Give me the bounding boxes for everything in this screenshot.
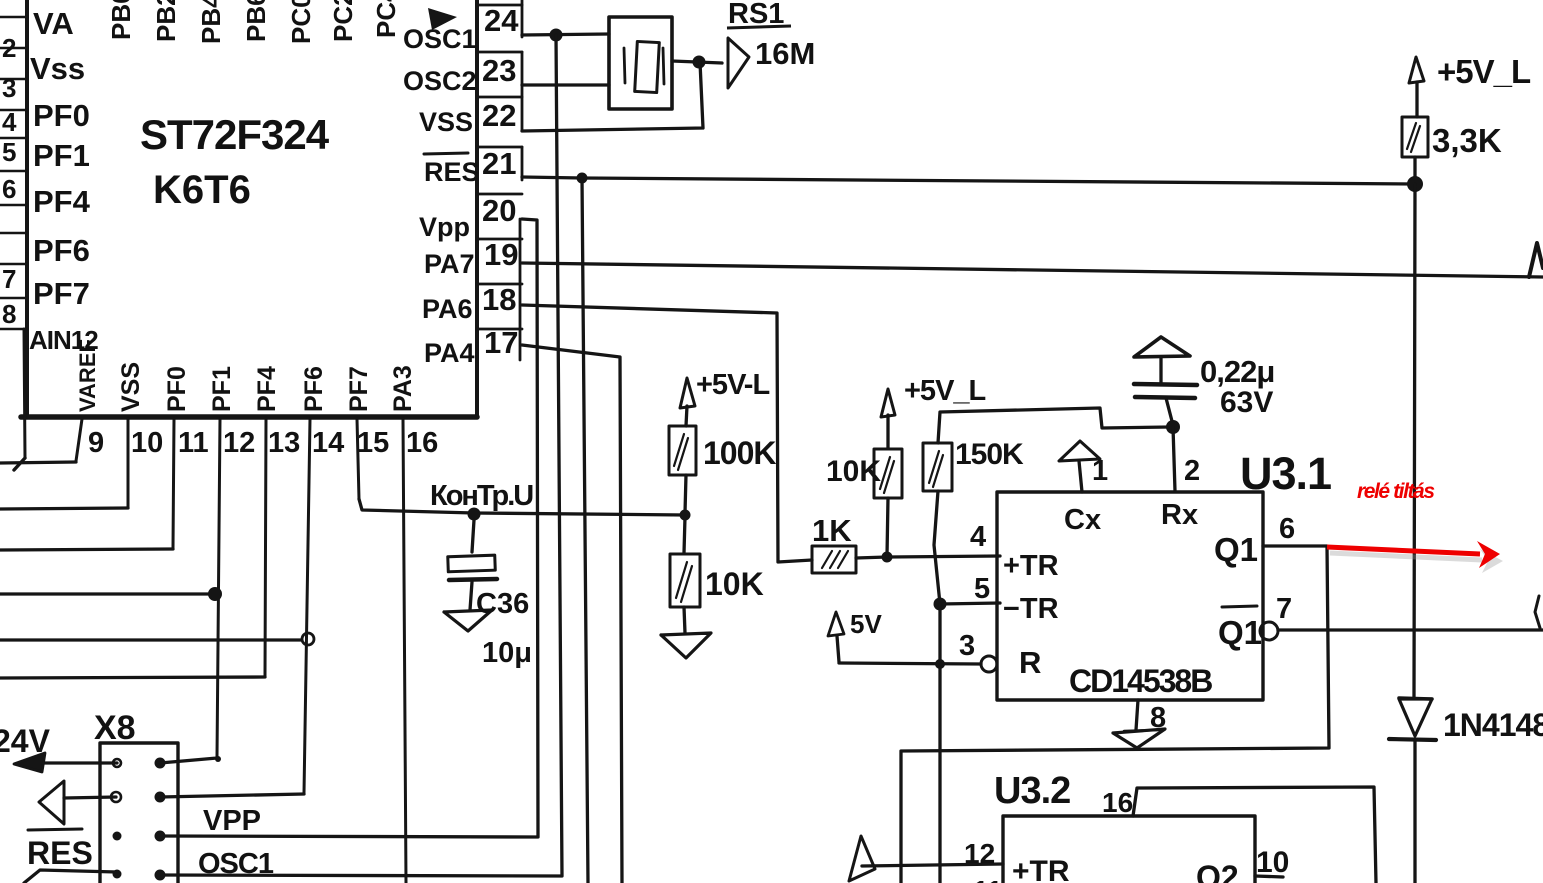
red arrow relay disable (1327, 541, 1500, 568)
junction dot crystal right (693, 56, 706, 69)
svg-text:PB0: PB0 (106, 0, 136, 40)
wire 24V arrow to X8 row1 (30, 761, 117, 764)
svg-text:PB2: PB2 (151, 0, 181, 42)
U2 right pin labels (403, 24, 480, 368)
svg-text:+TR: +TR (1003, 550, 1059, 582)
svg-text:Q1: Q1 (1218, 614, 1262, 651)
U3.2 pin numbers (964, 787, 1289, 883)
svg-text:3,3K: 3,3K (1432, 122, 1502, 159)
svg-text:PF7: PF7 (345, 366, 373, 412)
svg-text:14: 14 (312, 427, 344, 459)
svg-text:24: 24 (484, 3, 519, 38)
svg-text:10μ: 10μ (482, 637, 532, 669)
junction dot RES (577, 173, 588, 184)
svg-text:OSC1: OSC1 (403, 24, 477, 54)
svg-text:23: 23 (482, 53, 516, 88)
svg-text:VAREF: VAREF (75, 339, 100, 412)
wire X8 row1 to pin12 vertical (160, 757, 217, 763)
wire 150K top to cap node (938, 408, 1170, 443)
wire pin13 to left edge (0, 677, 265, 678)
svg-text:U3.2: U3.2 (994, 770, 1070, 812)
svg-text:Cx: Cx (1064, 504, 1101, 536)
wire PA4 pin17 vertical to bottom (522, 345, 622, 883)
X8 right pin dots (155, 758, 166, 769)
svg-text:PC2: PC2 (328, 0, 358, 42)
svg-text:12: 12 (223, 427, 255, 459)
U2 left pin numbers (cut) (2, 33, 17, 329)
X8 left pin row1 ring (113, 759, 121, 767)
svg-text:8: 8 (2, 299, 16, 329)
junction dot KOHTp.U (468, 508, 481, 521)
wire 150K bottom to -TR junction (934, 491, 940, 604)
power arrow 5V at R node (828, 612, 844, 636)
U2 left pin labels (29, 6, 98, 355)
cut mark on PA7 right edge (1529, 243, 1543, 277)
wire 1K to +TR junction (856, 557, 887, 558)
svg-text:+TR: +TR (1012, 855, 1070, 883)
svg-text:5: 5 (2, 137, 16, 167)
svg-text:OSC2: OSC2 (403, 66, 477, 96)
svg-text:24V: 24V (0, 723, 51, 759)
ground under U3.1 pin8 (1113, 729, 1165, 748)
svg-text:PF7: PF7 (33, 276, 90, 311)
svg-text:X8: X8 (94, 709, 136, 747)
svg-text:17: 17 (484, 325, 518, 360)
diode 1N4148 (1399, 698, 1432, 699)
resistor 10K lower (684, 517, 685, 553)
U3.2 pin10 stub (1255, 876, 1283, 877)
red arrow shadow (1330, 549, 1503, 573)
U2 left pin boxes (pins 1-8, cut at left edge) (0, 17, 27, 329)
svg-text:RES: RES (424, 157, 480, 187)
svg-text:Q1: Q1 (1214, 531, 1258, 568)
wire U3.1 pin7 to right edge (1278, 628, 1543, 631)
svg-text:6: 6 (1279, 513, 1295, 545)
overline RES label (28, 829, 82, 830)
svg-text:0,22μ: 0,22μ (1200, 354, 1274, 389)
capacitor C36 lead (472, 520, 474, 552)
svg-text:4: 4 (970, 521, 986, 553)
svg-text:16M: 16M (755, 36, 815, 71)
svg-text:10K: 10K (826, 455, 881, 488)
svg-text:PF1: PF1 (208, 366, 236, 412)
svg-text:15: 15 (357, 427, 389, 459)
svg-text:КонТр.U: КонТр.U (430, 480, 533, 512)
svg-text:VSS: VSS (117, 362, 145, 412)
ground under 10K (661, 633, 711, 658)
svg-text:R: R (1019, 645, 1041, 680)
wire pin11 to left edge (0, 549, 173, 550)
capacitor 0.22u plates (1134, 384, 1197, 385)
wire PA6 pin18 to 1K resistor (522, 305, 812, 562)
svg-text:16: 16 (1102, 787, 1133, 818)
crystal RS1 electrodes (624, 48, 625, 83)
capacitor 0.22u lower lead (1166, 398, 1173, 425)
bubble U3.1 pin7 (1260, 622, 1278, 640)
wire pin9 to left edge (0, 462, 76, 463)
svg-text:16: 16 (406, 427, 438, 459)
svg-text:11: 11 (973, 875, 1003, 883)
wire -TR node to U3.1 pin5 (940, 603, 1000, 604)
svg-text:PB4: PB4 (196, 0, 226, 44)
svg-text:PF4: PF4 (253, 366, 281, 412)
wire pin10 to left edge (0, 508, 128, 509)
wire Rx node to U3.1 pin2 (1173, 427, 1175, 491)
svg-text:5: 5 (974, 573, 990, 605)
wire OSC1 pin24 to crystal (522, 34, 609, 35)
IC U2 ST72F324 body (21, 0, 477, 417)
U2 bottom pin stubs (pins 9-16) (76, 419, 406, 883)
wire -TR node down to R node and U3.2 (938, 604, 941, 883)
svg-text:1N4148: 1N4148 (1443, 707, 1543, 743)
svg-text:5V: 5V (850, 609, 882, 639)
svg-text:63V: 63V (1220, 386, 1273, 419)
U3.1 pin8 stub (1136, 700, 1138, 730)
wire pin15 to KOHTp.U node (359, 499, 474, 513)
wire pin12 to left edge (junction) (0, 592, 215, 595)
capacitor C36 top plate (448, 555, 495, 572)
U2 right pin box column (477, 0, 522, 360)
svg-text:U3.1: U3.1 (1240, 448, 1331, 499)
X8 left pin row4 dot (113, 870, 122, 879)
svg-text:1K: 1K (812, 513, 852, 548)
crystal RS1 body (609, 17, 672, 109)
wire VPP pin20 to X8 (160, 219, 538, 837)
resistor 10K mid (874, 449, 902, 498)
junction dot +TR node (882, 552, 893, 563)
svg-text:2: 2 (2, 33, 16, 63)
svg-text:+5V_L: +5V_L (1437, 53, 1531, 90)
resistor 100K (669, 426, 696, 475)
wire RES to X8 row4 (24, 870, 117, 883)
svg-text:RES: RES (27, 835, 93, 871)
svg-text:+5V-L: +5V-L (696, 369, 769, 401)
wire 100K to junction (685, 475, 686, 513)
op-amp U3.1 CD14538B body (997, 492, 1263, 700)
svg-text:PA4: PA4 (424, 338, 475, 368)
svg-text:C36: C36 (476, 588, 529, 620)
wire 5V to U3.1 pin3 (839, 663, 981, 664)
svg-text:12: 12 (964, 838, 995, 869)
svg-text:VA: VA (33, 6, 74, 41)
svg-text:CD14538B: CD14538B (1069, 663, 1212, 699)
svg-text:PC0: PC0 (286, 0, 316, 44)
arrow +TR U3.2 open triangle (849, 836, 875, 881)
svg-text:relé tiltás: relé tiltás (1357, 480, 1435, 503)
U2 left edge lower segment to bottom-left corner (24, 329, 25, 458)
wire crystal node down to VSS pin22 (522, 62, 703, 131)
U3.2 pin16 stub and wire (1133, 787, 1376, 883)
pin1 Cx arrow (1059, 441, 1100, 461)
svg-text:10: 10 (131, 427, 163, 459)
svg-text:PF1: PF1 (33, 138, 90, 173)
cut mark right edge pin7 line (1535, 596, 1540, 628)
svg-text:Vss: Vss (30, 51, 85, 86)
svg-text:VPP: VPP (203, 805, 261, 837)
power arrow +5V-L above 100K (680, 378, 695, 408)
crystal RS1 inner plate (635, 41, 660, 92)
svg-text:PF0: PF0 (163, 366, 191, 412)
svg-text:100K: 100K (703, 435, 776, 471)
wire +TR node to U3.1 pin4 (887, 556, 1000, 557)
svg-text:PA7: PA7 (424, 249, 475, 279)
svg-text:Q2: Q2 (1196, 859, 1239, 883)
svg-text:−TR: −TR (1003, 593, 1059, 625)
svg-text:PF0: PF0 (33, 98, 90, 133)
svg-text:PF4: PF4 (33, 184, 91, 219)
wire U3.1 pin6 Q1 (901, 546, 1329, 883)
U2 bottom pin numbers (88, 427, 438, 459)
svg-text:20: 20 (482, 193, 516, 228)
capacitor 0.22u top arrow (1134, 337, 1190, 357)
ground under C36 (444, 610, 492, 631)
wire X8 row2 to pin14 vertical (160, 794, 304, 797)
wire 3.3K junction down through diode to bottom (1414, 184, 1415, 698)
svg-text:7: 7 (2, 264, 16, 294)
overline Q1 pin7 label (1222, 606, 1257, 607)
X8 left pin row3 dot (113, 832, 122, 841)
svg-text:ST72F324: ST72F324 (140, 111, 330, 158)
svg-text:PA3: PA3 (389, 365, 417, 412)
svg-text:13: 13 (268, 427, 300, 459)
svg-text:K6T6: K6T6 (153, 168, 251, 212)
resonator triangle symbol (728, 38, 749, 88)
svg-text:8: 8 (1150, 702, 1166, 734)
connector X8 body (100, 743, 178, 883)
svg-text:PC4: PC4 (371, 0, 401, 38)
svg-text:18: 18 (482, 282, 516, 317)
svg-text:150K: 150K (955, 438, 1024, 471)
svg-text:Vpp: Vpp (419, 212, 470, 242)
svg-text:7: 7 (1276, 593, 1292, 625)
svg-text:PB6: PB6 (241, 0, 271, 42)
IC U3.2 body (1003, 816, 1255, 883)
svg-text:3: 3 (2, 73, 16, 103)
junction dot R node (935, 659, 945, 669)
wire crystal to resonator node (672, 61, 722, 63)
junction dot OSC1 (550, 29, 563, 42)
bubble U3.1 pin3 (981, 656, 997, 672)
svg-text:21: 21 (482, 146, 516, 181)
svg-text:9: 9 (88, 427, 104, 459)
svg-text:6: 6 (2, 174, 16, 204)
wire pin14 to left edge (0, 638, 301, 641)
arrow 24V head (14, 753, 45, 772)
U2 bottom pin labels rotated (75, 339, 417, 412)
feedthrough circle on pin14 line (302, 633, 314, 645)
svg-text:PF6: PF6 (33, 233, 90, 268)
svg-text:Rx: Rx (1161, 499, 1198, 531)
power arrow +5V_L top right (1409, 57, 1424, 83)
arrow X8 row2 open triangle (39, 781, 64, 824)
capacitor C36 lower lead (470, 582, 472, 610)
wire +TR arrow to U3.2 pin12 (862, 864, 1003, 866)
wire RES pin21 to 3.3K junction (522, 177, 1414, 184)
junction dot -TR node (934, 598, 947, 611)
overline RES pin21 label (424, 153, 468, 154)
svg-text:PF6: PF6 (300, 366, 328, 412)
U2 top pin labels (cut by edge) (106, 0, 401, 44)
svg-text:1: 1 (1092, 455, 1108, 487)
svg-text:4: 4 (2, 107, 17, 137)
svg-text:PA6: PA6 (422, 294, 473, 324)
resistor 1K (812, 546, 856, 573)
svg-text:19: 19 (484, 237, 518, 272)
svg-text:+5V_L: +5V_L (904, 375, 986, 407)
mark top arrow (428, 8, 457, 30)
junction dot divider (680, 510, 691, 521)
wire OSC1 vertical to X8 (160, 35, 562, 876)
wire node KOHTp.U to divider junction (474, 513, 685, 515)
capacitor C36 bottom plate (449, 579, 497, 580)
wire RES vertical to bottom (582, 178, 588, 883)
junction dot pin12 (208, 587, 222, 601)
wire OSC2 pin23 to crystal (522, 83, 609, 86)
junction dot 3.3K RES (1407, 176, 1423, 192)
resistor 3.3K (1402, 117, 1428, 157)
U3.1 pin numbers (959, 455, 1295, 734)
X8 left pin row2 ring (111, 792, 121, 802)
U3.1 pin names (1003, 499, 1262, 680)
svg-text:10: 10 (1256, 846, 1289, 879)
wire PA7 pin19 across sheet (522, 263, 1543, 277)
svg-text:VSS: VSS (419, 107, 473, 137)
svg-text:11: 11 (178, 427, 209, 459)
svg-text:10K: 10K (705, 566, 764, 602)
svg-text:3: 3 (959, 630, 975, 662)
svg-text:OSC1: OSC1 (198, 848, 274, 880)
power arrow +5V_L above 10K mid (881, 389, 895, 417)
resistor 150K (923, 443, 952, 491)
U2 right pin numbers (482, 3, 519, 360)
svg-text:22: 22 (482, 98, 516, 133)
svg-text:2: 2 (1184, 455, 1200, 487)
junction dot Rx node (1166, 420, 1180, 434)
